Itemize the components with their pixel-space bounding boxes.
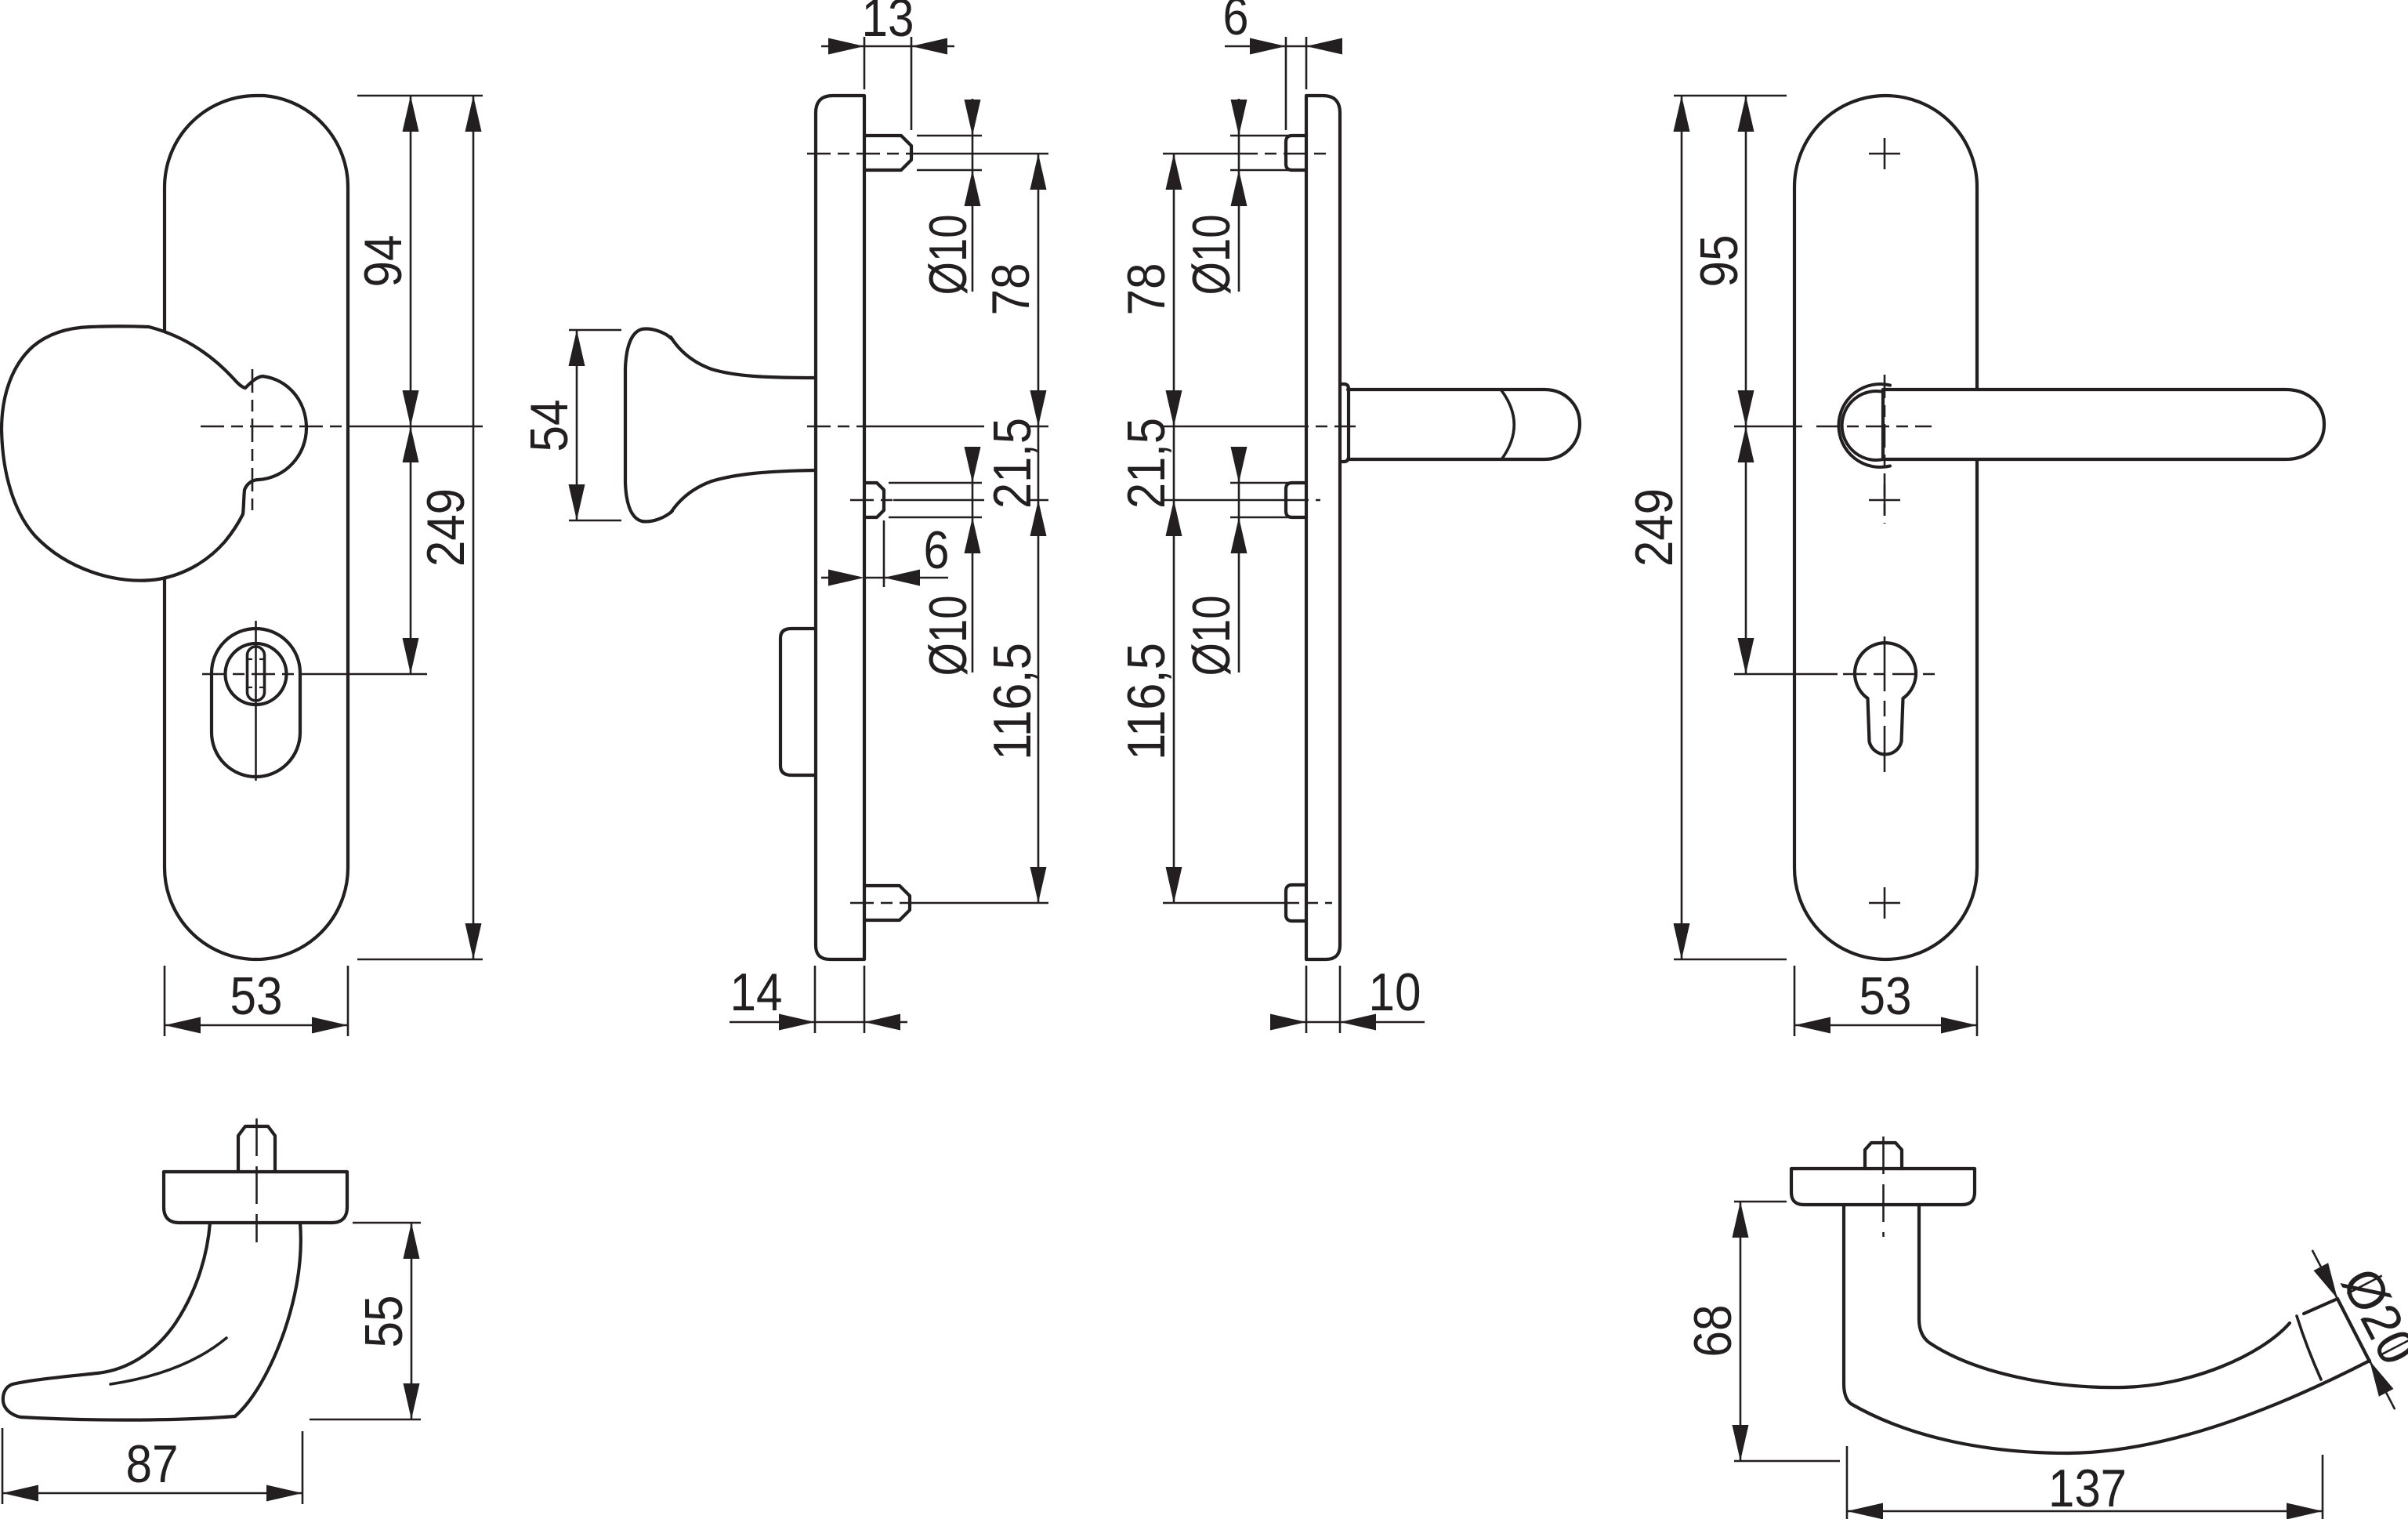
lever collar flange xyxy=(1340,384,1349,462)
dimension Ø20 at grip end xyxy=(2312,1250,2337,1299)
plate outline (53 x 249) xyxy=(165,96,348,959)
dimension 68 extension lines xyxy=(1734,1201,1787,1203)
svg-text:78: 78 xyxy=(981,263,1041,316)
cylinder centre line vertical xyxy=(255,621,257,781)
svg-text:13: 13 xyxy=(862,0,914,48)
dimension 54 extension lines xyxy=(569,329,621,332)
middle screw cross xyxy=(1869,499,1900,502)
lever bar front view xyxy=(1883,390,2324,459)
knob grip crease line xyxy=(110,1338,226,1384)
dimension 6 line and arrows xyxy=(821,577,831,579)
dimension 94 line (plate top to knob centre) xyxy=(410,96,412,674)
svg-text:10: 10 xyxy=(1369,963,1421,1022)
knob centre line horizontal xyxy=(201,426,353,428)
middle screw boss xyxy=(1286,483,1306,517)
dimension 53 line xyxy=(1794,1024,1977,1027)
extension line plate top xyxy=(357,95,483,97)
lever centre line horizontal xyxy=(1816,426,1932,428)
cylinder guard oval xyxy=(212,629,300,777)
knob centre line vertical xyxy=(252,369,254,512)
extension line knob centre to dimension lines xyxy=(353,426,483,428)
svg-text:94: 94 xyxy=(353,235,413,288)
svg-text:68: 68 xyxy=(1683,1305,1743,1358)
dimension 10 extension lines xyxy=(1305,966,1308,1033)
lever collar outer arc xyxy=(1838,384,1890,467)
svg-text:137: 137 xyxy=(2048,1459,2127,1518)
svg-text:78: 78 xyxy=(1117,263,1176,316)
dimension 14 line and arrows xyxy=(730,1021,815,1024)
svg-text:116,5: 116,5 xyxy=(983,643,1042,760)
dimension 13 line and arrows xyxy=(821,45,864,48)
lever flange disc xyxy=(1791,1169,1975,1205)
svg-text:95: 95 xyxy=(1689,235,1749,288)
dimension 13 extension lines xyxy=(864,37,866,89)
svg-text:249: 249 xyxy=(416,488,476,567)
lever spindle stub xyxy=(1865,1143,1902,1169)
dimension Ø10 top line xyxy=(1238,99,1240,292)
bottom screw boss xyxy=(1286,885,1306,921)
lever centre line vertical xyxy=(1884,375,1886,524)
knob centre line through plate xyxy=(807,426,868,428)
cylinder core circle xyxy=(226,643,287,705)
dimension chain line 78 / 21,5 / 116,5 xyxy=(1037,154,1040,903)
bottom screw boss xyxy=(864,886,910,920)
svg-text:53: 53 xyxy=(1859,966,1912,1026)
top screw boss 6 deep xyxy=(1286,136,1306,170)
dimension 55 extension lines xyxy=(353,1222,421,1224)
knob flange disc xyxy=(164,1172,347,1223)
dimension 6 extension line xyxy=(883,520,885,587)
extension line plate bottom xyxy=(357,959,483,961)
dimension 137 extension lines xyxy=(1846,1446,1849,1519)
extension line plate bottom xyxy=(1674,959,1787,961)
dimension 6 line and arrows xyxy=(1225,45,1286,48)
dimension 53 extension lines xyxy=(164,966,166,1036)
svg-text:53: 53 xyxy=(230,966,283,1026)
bottom screw centre line xyxy=(850,902,918,905)
knob body left contour and grip xyxy=(3,1223,235,1420)
svg-text:6: 6 xyxy=(924,520,950,580)
dimension 54 line xyxy=(576,330,578,520)
cylinder centre line vertical xyxy=(1884,636,1886,772)
lever neck and grip upper contour xyxy=(1919,1205,2290,1387)
svg-text:Ø10: Ø10 xyxy=(1182,215,1241,295)
plate side profile (10 thick) xyxy=(1306,96,1340,959)
extension line lever centre xyxy=(1734,426,1802,428)
lever collar inner arc xyxy=(1842,391,1885,460)
dimension 10 line and arrows xyxy=(1273,1021,1306,1024)
cylinder centre line horizontal xyxy=(202,673,312,676)
middle screw centre line xyxy=(1163,499,1285,502)
dimension knob centre to cylinder centre xyxy=(403,426,419,462)
svg-text:14: 14 xyxy=(730,963,783,1022)
extension line cylinder centre xyxy=(312,673,427,676)
lever grip side view xyxy=(1348,390,1580,459)
middle screw boss 6 deep xyxy=(864,483,884,517)
cylinder centre line horizontal xyxy=(1843,673,1935,676)
dimension Ø10 bottom line xyxy=(972,447,974,672)
knob body right contour xyxy=(235,1223,301,1416)
dimension chain line 78 / 21,5 / 116,5 xyxy=(1173,154,1175,903)
svg-text:87: 87 xyxy=(126,1434,179,1494)
top screw boss 13 deep xyxy=(864,136,911,170)
extension line cylinder centre xyxy=(1734,673,1838,676)
spindle centre line xyxy=(255,1118,258,1242)
bottom screw centre line xyxy=(1163,902,1276,905)
knob side profile cap xyxy=(625,329,672,522)
dimension 249 line (plate height) xyxy=(473,96,475,959)
dimension Ø10 top extension lines xyxy=(1230,135,1306,137)
lever neck and grip lower contour xyxy=(1844,1205,2370,1453)
dimension 68 line xyxy=(1740,1202,1742,1461)
spindle centre line xyxy=(1882,1137,1885,1237)
knob (front view, pear shape with tip) xyxy=(2,326,306,580)
dimension 249 line (plate height) xyxy=(1681,96,1683,959)
bottom screw cross xyxy=(1869,902,1900,905)
dimension 53 line xyxy=(165,1024,348,1027)
svg-text:55: 55 xyxy=(354,1296,414,1348)
lever grip dome edge line xyxy=(2297,1316,2321,1379)
dimension Ø20 extension lines xyxy=(2347,1276,2381,1294)
top screw centre line xyxy=(807,153,921,155)
dimension Ø10 bottom extension lines xyxy=(889,482,982,484)
dimension 95 line (plate top to lever centre) xyxy=(1745,96,1747,674)
plate side profile (14 thick) xyxy=(816,96,864,959)
dimension 55 line xyxy=(411,1223,413,1419)
extension line plate top xyxy=(1674,95,1787,97)
top screw centre line xyxy=(1163,153,1234,155)
svg-text:249: 249 xyxy=(1624,488,1684,567)
dimension Ø10 top extension lines xyxy=(917,135,982,137)
keyway notches xyxy=(248,658,253,660)
middle screw centre line xyxy=(850,499,893,502)
cylinder keyway slot xyxy=(248,647,265,701)
svg-text:21,5: 21,5 xyxy=(983,418,1042,509)
dimension Ø10 bottom line xyxy=(1238,447,1240,672)
lever grip end face xyxy=(2337,1299,2370,1361)
dimension 53 extension lines xyxy=(1794,966,1796,1036)
dimension Ø10 bottom extension lines xyxy=(1230,482,1306,484)
dimension Ø10 top line xyxy=(972,99,974,292)
svg-text:6: 6 xyxy=(1223,0,1249,46)
svg-text:116,5: 116,5 xyxy=(1117,643,1176,760)
plate outline (53 x 249) xyxy=(1794,96,1977,959)
cylinder housing bump xyxy=(780,629,816,775)
dimension 14 extension lines xyxy=(814,966,817,1033)
lever grip top contour tip segment xyxy=(2304,1299,2337,1314)
svg-text:Ø10: Ø10 xyxy=(1182,596,1241,676)
svg-text:Ø10: Ø10 xyxy=(918,596,978,676)
dimension lever centre to cylinder centre xyxy=(1738,426,1754,462)
dimension 137 line xyxy=(1847,1510,2323,1513)
cylinder hole PZ profile xyxy=(1855,643,1916,754)
lever grip dome edge arc xyxy=(1501,390,1514,459)
top screw cross xyxy=(1869,153,1900,155)
svg-text:21,5: 21,5 xyxy=(1117,418,1176,509)
knob spindle stub xyxy=(238,1126,275,1172)
svg-text:Ø10: Ø10 xyxy=(918,215,978,295)
svg-text:54: 54 xyxy=(520,400,579,452)
knob neck bottom contour xyxy=(671,470,816,513)
lever centre line xyxy=(1163,426,1285,428)
dimension 6 extension lines xyxy=(1285,37,1287,130)
dimension 87 extension lines xyxy=(2,1428,4,1504)
dimension 87 line xyxy=(2,1492,302,1495)
knob neck top contour xyxy=(671,337,816,378)
